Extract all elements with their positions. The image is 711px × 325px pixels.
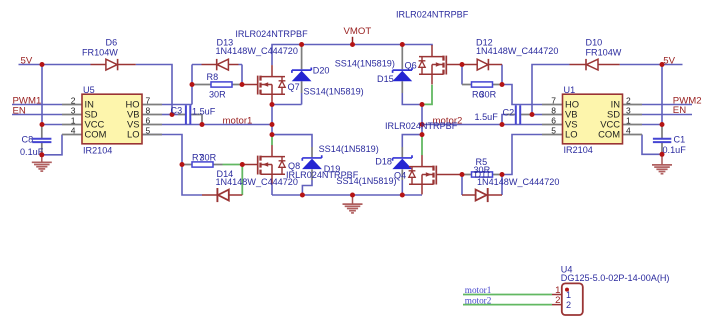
wire green R7 to gate node — [223, 164, 243, 166]
capacitor C1 plates — [653, 139, 671, 142]
wire D12/R6 right node vertical — [501, 65, 503, 85]
wire motor1 to connector — [463, 294, 552, 296]
C8 pin stubs — [41, 125, 43, 155]
transistor Q7 IRLR024N — [242, 65, 285, 104]
svg-text:C8: C8 — [22, 135, 34, 145]
wire VB2 — [532, 114, 542, 116]
resistor R5 leads — [462, 174, 502, 176]
wire motor2 VS row — [422, 124, 542, 126]
svg-text:5V: 5V — [21, 56, 33, 67]
junction VMOT D20 — [299, 42, 304, 47]
svg-text:D15: D15 — [377, 74, 394, 84]
U5 pin stubs — [62, 105, 82, 135]
svg-text:D10: D10 — [586, 38, 603, 48]
resistor R6 leads — [462, 84, 502, 86]
wire D19 cathode link — [272, 135, 312, 147]
svg-text:2: 2 — [71, 95, 76, 105]
resistor R7 — [192, 162, 213, 167]
junction VMOT D15 — [400, 42, 405, 47]
svg-text:1N4148W_C444720: 1N4148W_C444720 — [216, 46, 298, 56]
svg-text:1.5uF: 1.5uF — [475, 112, 499, 122]
svg-text:C3: C3 — [171, 105, 183, 115]
junction R7 right — [240, 162, 245, 167]
C1 pin stubs — [661, 125, 663, 154]
junction VCC1 — [40, 122, 45, 127]
svg-text:EN: EN — [673, 105, 686, 116]
svg-text:8: 8 — [146, 105, 151, 115]
wire COM2 to C1 bottom — [642, 135, 662, 155]
junction C8 gnd — [39, 152, 44, 157]
svg-text:IRLR024NTRPBF: IRLR024NTRPBF — [385, 121, 458, 131]
svg-text:3: 3 — [71, 105, 76, 115]
resistor R8 — [211, 82, 232, 87]
junction gnd stem — [350, 193, 355, 198]
wire VB1 to C3 — [162, 114, 178, 116]
svg-text:R8: R8 — [207, 72, 219, 82]
supply VMOT stem — [352, 37, 354, 45]
junction VCC2 — [660, 122, 665, 127]
svg-text:7: 7 — [146, 95, 151, 105]
junction Q6 gate node — [460, 62, 465, 67]
junction VMOT stem — [350, 42, 355, 47]
svg-text:LO: LO — [127, 129, 140, 140]
ground C8 — [32, 162, 52, 171]
wire 5V right — [620, 64, 683, 66]
svg-text:SS14(1N5819): SS14(1N5819) — [319, 144, 379, 154]
transistor Q8 IRLR024N — [242, 145, 285, 184]
svg-text:0.1uF: 0.1uF — [20, 147, 44, 157]
svg-text:IRLR024NTRPBF: IRLR024NTRPBF — [286, 170, 359, 180]
svg-text:D20: D20 — [313, 65, 330, 75]
C2 pin stubs — [506, 114, 532, 116]
connector U4 — [552, 265, 669, 315]
svg-text:motor1: motor1 — [465, 285, 492, 295]
svg-text:IR2104: IR2104 — [564, 145, 593, 155]
wire R5/D11 left node vertical — [461, 175, 463, 196]
svg-text:3: 3 — [626, 105, 631, 115]
svg-text:0.1uF: 0.1uF — [663, 145, 687, 155]
capacitor C3 plates — [186, 105, 190, 124]
D19 pin stubs — [311, 147, 313, 180]
svg-text:1: 1 — [566, 290, 571, 300]
diode D10 FR104W — [570, 59, 620, 70]
junction Q6 source — [420, 102, 425, 107]
diode D12 1N4148W — [462, 59, 502, 70]
resistor R6 — [472, 82, 493, 87]
wire EN left — [12, 114, 62, 116]
wire Q4 gate extension — [452, 174, 462, 176]
C3 pin stubs — [178, 115, 202, 125]
svg-text:30R: 30R — [474, 165, 491, 175]
wire Q8 source to gnd rail — [271, 184, 273, 195]
svg-text:1N4148W_C444720: 1N4148W_C444720 — [476, 46, 558, 56]
wire green Q6 source link — [423, 85, 432, 105]
svg-text:Q6: Q6 — [405, 60, 417, 70]
wire 5V left — [19, 64, 91, 66]
wire VMOT rail — [272, 45, 432, 66]
svg-text:5: 5 — [551, 125, 556, 135]
wire COM1 to C8 bottom — [42, 135, 62, 155]
svg-text:IRLR024NTRPBF: IRLR024NTRPBF — [235, 29, 308, 39]
schottky D18 SS14 — [392, 155, 412, 169]
svg-text:U5: U5 — [83, 85, 95, 95]
U1 pin stubs — [542, 105, 563, 135]
wire green Q4 drain link — [421, 136, 423, 156]
junction 5V left — [40, 62, 45, 67]
svg-text:C2: C2 — [503, 108, 515, 118]
D20 pin stubs — [301, 45, 303, 93]
wire LO2 jog — [502, 135, 542, 175]
svg-text:2: 2 — [566, 300, 571, 310]
svg-text:5V: 5V — [663, 56, 675, 67]
schottky D15 SS14 — [392, 68, 412, 82]
wire D18 cathode link — [402, 135, 422, 147]
wire C2 left plate to motor2 — [502, 115, 506, 125]
junction Q8 drain — [270, 132, 275, 137]
svg-text:IRLR024NTRPBF: IRLR024NTRPBF — [396, 10, 469, 20]
diode D6 FR104W — [91, 59, 136, 70]
svg-text:1N4148W_C444720: 1N4148W_C444720 — [477, 177, 559, 187]
junction D18 gnd — [400, 193, 405, 198]
IC U1 IR2104 — [551, 85, 631, 155]
junction R8 left — [190, 82, 195, 87]
IC U5 IR2104 — [71, 85, 151, 155]
junction R8 right — [240, 82, 245, 87]
wire D15 anode link — [402, 93, 421, 105]
junction Q7 source — [270, 102, 275, 107]
svg-text:U1: U1 — [564, 85, 576, 95]
diode D11 1N4148W — [462, 188, 502, 202]
wire D6 cathode to VB drop — [136, 65, 172, 115]
svg-text:4: 4 — [626, 125, 631, 135]
svg-text:6: 6 — [146, 115, 151, 125]
wire PWM1 — [12, 104, 62, 106]
svg-text:COM: COM — [598, 129, 620, 140]
wire green Q8 drain link — [271, 135, 273, 145]
junction R5 left — [460, 172, 465, 177]
wire PWM2 — [642, 104, 692, 106]
wire HO1 — [162, 104, 192, 106]
svg-text:VMOT: VMOT — [344, 26, 372, 37]
svg-text:30R: 30R — [200, 153, 217, 163]
junction R7 left — [180, 162, 185, 167]
svg-text:6: 6 — [551, 115, 556, 125]
junction Q4 drain — [420, 132, 425, 137]
wire R5/D11 right node vertical — [501, 175, 503, 196]
capacitor C8 plates — [32, 139, 51, 142]
wire 5V right vertical to VCC2 — [661, 65, 663, 125]
wire VCC2 — [642, 124, 662, 126]
svg-text:D6: D6 — [106, 38, 118, 48]
wire D19 anode jog to gnd rail — [302, 180, 312, 195]
svg-text:D18: D18 — [375, 157, 392, 167]
svg-text:FR104W: FR104W — [82, 47, 118, 57]
svg-text:FR104W: FR104W — [586, 47, 622, 57]
junction C3 to VS — [200, 122, 205, 127]
wire LO1 — [142, 135, 202, 196]
wire half-bridge1 output column — [271, 105, 273, 136]
wire D20 anode link — [272, 93, 302, 105]
svg-text:2: 2 — [626, 95, 631, 105]
svg-text:30R: 30R — [209, 89, 226, 99]
wire motor1 VS row — [162, 124, 272, 126]
wire EN right — [642, 114, 692, 116]
ground C1 — [652, 165, 672, 174]
junction VB2 — [530, 112, 535, 117]
wire gnd rail — [272, 194, 422, 196]
transistor Q4 IRLR024N — [409, 155, 452, 194]
schottky D20 SS14 — [292, 68, 312, 82]
resistor R7 leads — [182, 164, 223, 166]
svg-text:2: 2 — [555, 295, 560, 306]
svg-text:8: 8 — [551, 105, 556, 115]
wire HO1 vertical to gate network — [191, 65, 193, 105]
svg-text:4: 4 — [71, 125, 76, 135]
svg-text:motor2: motor2 — [465, 295, 492, 305]
D18 pin stubs — [401, 147, 403, 180]
svg-text:1.5uF: 1.5uF — [192, 106, 216, 116]
svg-text:EN: EN — [13, 105, 26, 116]
wire HO2 jog — [502, 85, 542, 105]
svg-text:LO: LO — [565, 129, 578, 140]
ground bridge center — [343, 204, 363, 213]
wire D12/R6 left node vertical — [461, 65, 463, 85]
wire 5V left vertical to VCC — [41, 65, 43, 125]
wire motor2 to connector — [463, 304, 552, 306]
svg-text:C1: C1 — [674, 135, 686, 145]
diode D14 1N4148W — [202, 188, 242, 202]
capacitor C2 plates — [516, 105, 520, 124]
junction D19 gnd — [300, 193, 305, 198]
junction C2 to VS2 — [500, 122, 505, 127]
wire D18 anode to gnd rail — [401, 180, 403, 195]
junction R6 right — [500, 82, 505, 87]
wire green D14 to gate node — [241, 165, 243, 196]
svg-text:motor1: motor1 — [223, 116, 253, 127]
svg-text:1: 1 — [626, 115, 631, 125]
schottky D19 SS14 — [302, 155, 322, 169]
svg-text:SS14(1N5819): SS14(1N5819) — [304, 87, 364, 97]
wire D10 cathode to VB2 drop — [532, 65, 570, 115]
diode D13 1N4148W — [192, 59, 242, 70]
svg-text:SS14(1N5819): SS14(1N5819) — [335, 59, 395, 69]
junction motor2 — [420, 122, 425, 127]
svg-text:Q7: Q7 — [288, 82, 300, 92]
junction VB1 — [170, 112, 175, 117]
junction C1 gnd — [660, 152, 665, 157]
svg-text:30R: 30R — [480, 90, 497, 100]
junction 5V right — [660, 62, 665, 67]
svg-text:1: 1 — [71, 115, 76, 125]
wire VCC1 — [42, 124, 62, 126]
wire half-bridge2 output column — [421, 105, 423, 136]
resistor R5 — [472, 172, 493, 177]
junction motor1 — [270, 122, 275, 127]
resistor R8 leads — [192, 84, 242, 86]
svg-text:5: 5 — [146, 125, 151, 135]
wire D13/R8 right node vertical — [241, 65, 243, 85]
svg-text:7: 7 — [551, 95, 556, 105]
svg-text:COM: COM — [85, 129, 107, 140]
svg-text:DG125-5.0-02P-14-00A(H): DG125-5.0-02P-14-00A(H) — [561, 273, 670, 283]
svg-text:IR2104: IR2104 — [83, 146, 112, 156]
transistor Q6 IRLR024N — [419, 45, 462, 84]
junction R5 right — [500, 172, 505, 177]
D15 pin stubs — [401, 45, 403, 93]
